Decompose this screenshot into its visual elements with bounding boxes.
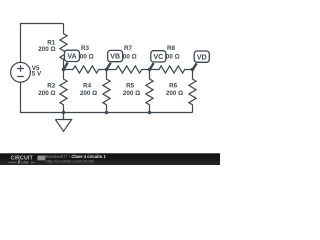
svg-text:200 Ω: 200 Ω bbox=[123, 90, 140, 97]
resistor R2 bbox=[60, 70, 67, 113]
probe VD box bbox=[194, 51, 209, 62]
svg-text:5 V: 5 V bbox=[32, 71, 42, 78]
svg-text:VC: VC bbox=[153, 54, 163, 61]
svg-text:R5: R5 bbox=[126, 83, 135, 90]
resistor R5 bbox=[146, 70, 153, 113]
probe VA box bbox=[64, 50, 79, 61]
probe VD needle bbox=[193, 63, 197, 69]
svg-text:R7: R7 bbox=[124, 45, 133, 52]
ground bbox=[55, 113, 71, 132]
svg-text:R8: R8 bbox=[167, 45, 176, 52]
resistor R3 bbox=[64, 66, 107, 73]
rail junction dot ground bbox=[62, 111, 65, 114]
svg-text:200 Ω: 200 Ω bbox=[80, 90, 97, 97]
svg-text:200 Ω: 200 Ω bbox=[38, 46, 55, 53]
probe VB box bbox=[108, 50, 123, 61]
node B dot bbox=[105, 68, 108, 71]
resistor R1 bbox=[60, 24, 67, 70]
svg-text:R4: R4 bbox=[83, 83, 92, 90]
rail junction dot R4 bbox=[105, 111, 108, 114]
svg-text:VB: VB bbox=[110, 54, 120, 61]
resistor R4 bbox=[103, 70, 110, 113]
node C dot bbox=[148, 68, 151, 71]
svg-text:VD: VD bbox=[197, 54, 207, 61]
voltage source V5 bbox=[11, 62, 31, 82]
svg-text:200 Ω: 200 Ω bbox=[38, 90, 55, 97]
probe VB needle bbox=[107, 63, 111, 70]
svg-text:http://circuitlab.com/c25a5b: http://circuitlab.com/c25a5b bbox=[46, 158, 95, 163]
footer logo CircuitLab bbox=[9, 156, 46, 165]
probe VC box bbox=[151, 51, 166, 62]
svg-text:LAB: LAB bbox=[21, 161, 29, 165]
node D dot bbox=[191, 68, 194, 71]
svg-text:R3: R3 bbox=[81, 45, 90, 52]
probe VC needle bbox=[150, 63, 154, 69]
svg-text:R6: R6 bbox=[169, 83, 178, 90]
svg-text:200 Ω: 200 Ω bbox=[166, 90, 183, 97]
rail junction dot R5 bbox=[148, 111, 151, 114]
wire bottom: V5 bottom to ground rail bbox=[21, 82, 193, 112]
resistor R8 bbox=[150, 66, 193, 73]
probe VA needle bbox=[64, 63, 68, 70]
svg-text:R2: R2 bbox=[47, 83, 56, 90]
resistor R6 bbox=[189, 70, 196, 113]
svg-text:VA: VA bbox=[67, 54, 76, 61]
resistor R7 bbox=[107, 66, 150, 73]
node A dot bbox=[62, 68, 65, 71]
wire top: V5 top to R1 top bbox=[21, 24, 64, 63]
